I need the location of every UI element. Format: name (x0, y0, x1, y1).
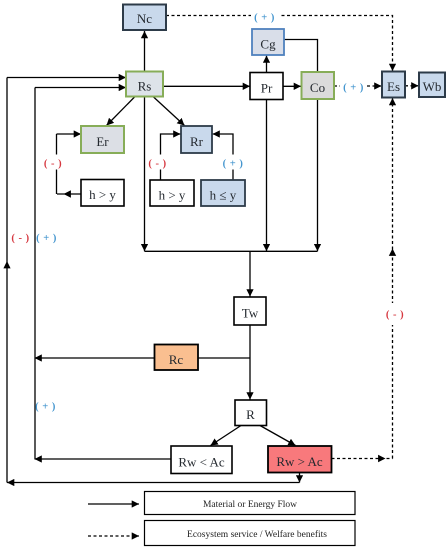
wire branch to Rc (198, 357, 250, 359)
node Rr (181, 126, 212, 153)
svg-text:Rc: Rc (169, 352, 184, 367)
wire R to Rw>Ac (260, 426, 296, 446)
node Tw (234, 297, 266, 325)
svg-text:Nc: Nc (137, 11, 152, 26)
node Rc (155, 345, 199, 371)
wire Rs to Nc (144, 31, 146, 72)
wire inner-left into Rs (35, 87, 126, 89)
svg-text:Tw: Tw (242, 305, 259, 320)
wire Rc to inner-left vertical (35, 357, 155, 359)
label plus Co-Es (340, 81, 367, 92)
arrowhead up mid on dashed Es wire (389, 249, 396, 256)
wire bottom return from Rw>Ac to left (7, 482, 300, 484)
node h>y middle (150, 180, 194, 206)
svg-text:Es: Es (387, 79, 400, 94)
svg-text:h ≤ y: h ≤ y (210, 188, 237, 203)
dashed wire Es to Wb (405, 85, 419, 87)
wire Cg elbow down to junction (284, 40, 318, 252)
svg-text:h > y: h > y (159, 188, 186, 203)
svg-text:R: R (246, 407, 255, 422)
node h>y left (81, 180, 124, 207)
wire h>y to Er feedback lower (57, 193, 81, 195)
wire Pr to Co (283, 85, 301, 87)
svg-text:Cg: Cg (260, 36, 276, 51)
dashed wire Nc to Es over top (166, 16, 393, 72)
label minus Rr left (147, 155, 171, 170)
wire outer-left vertical (6, 78, 8, 483)
svg-text:( - ): ( - ) (44, 159, 62, 170)
svg-text:( + ): ( + ) (35, 402, 56, 413)
legend solid arrow (88, 503, 139, 505)
svg-text:Ecosystem service / Welfare be: Ecosystem service / Welfare benefits (187, 529, 327, 540)
label plus Rr right (219, 155, 246, 170)
node Rw<Ac (171, 446, 232, 474)
wire inner-left vertical (34, 88, 36, 460)
node Wb (419, 73, 445, 98)
wire h>y to Rr feedback (161, 134, 181, 180)
svg-text:( + ): ( + ) (36, 233, 57, 244)
wire Rw<Ac to inner-left vertical (35, 458, 172, 460)
arrowhead right on dashed Rw>Ac wire (378, 455, 385, 462)
svg-text:Material or Energy Flow: Material or Energy Flow (203, 500, 297, 510)
node Nc (123, 5, 166, 31)
svg-text:Er: Er (96, 134, 109, 149)
wire Rs to Pr (163, 85, 250, 87)
node Cg (252, 29, 284, 55)
svg-text:h > y: h > y (89, 187, 116, 202)
wire Rs to Er (107, 97, 136, 126)
wire junction to Tw (249, 251, 251, 296)
wire Pr to Cg (266, 56, 268, 73)
node Pr (250, 73, 283, 100)
wire junction horizontal (145, 250, 318, 252)
node Rs (126, 72, 163, 97)
legend box ecosystem service (145, 521, 356, 546)
svg-text:Rr: Rr (190, 134, 204, 149)
svg-text:( - ): ( - ) (148, 159, 166, 170)
wire Rs to Rr (153, 97, 185, 126)
svg-text:Wb: Wb (423, 79, 442, 94)
node Rw>Ac (268, 446, 332, 473)
svg-text:( + ): ( + ) (254, 13, 275, 24)
node Es (382, 72, 405, 98)
svg-text:Pr: Pr (261, 81, 273, 96)
node R (235, 400, 267, 426)
arrowhead left on Er feedback (64, 190, 71, 197)
wire Er feedback vertical (56, 134, 58, 194)
node h<=y (201, 180, 245, 206)
node Co (302, 72, 335, 99)
wire Er feedback into Er (57, 133, 82, 135)
svg-text:( - ): ( - ) (11, 233, 29, 244)
label minus Er feedback (44, 155, 68, 170)
svg-text:Rw < Ac: Rw < Ac (178, 454, 225, 469)
svg-text:Rw > Ac: Rw > Ac (276, 454, 323, 469)
wire outer-left into Rs (7, 77, 126, 79)
dashed wire up to Es bottom (392, 98, 394, 459)
legend box material flow (145, 492, 356, 515)
svg-text:( + ): ( + ) (223, 159, 244, 170)
dashed wire Rw>Ac horizontal (332, 458, 393, 460)
label minus dashed Es wire (384, 303, 406, 325)
arrowhead up on outer-left vertical (3, 261, 10, 268)
wire R to Rw<Ac (211, 426, 242, 446)
wire Rw>Ac down to bottom return (299, 473, 301, 483)
wire Rs down to junction (144, 97, 146, 252)
wire h<=y to Rr feedback (213, 134, 234, 180)
node Er (81, 126, 124, 153)
dashed wire Co to Es (334, 85, 382, 87)
label plus top (251, 11, 279, 23)
legend dashed arrow (88, 535, 139, 537)
wire Pr down to junction (266, 100, 268, 252)
wire Tw to R (249, 325, 251, 400)
svg-text:( - ): ( - ) (386, 310, 404, 321)
svg-text:( + ): ( + ) (343, 83, 364, 94)
svg-text:Rs: Rs (138, 79, 152, 94)
svg-text:Co: Co (310, 80, 325, 95)
